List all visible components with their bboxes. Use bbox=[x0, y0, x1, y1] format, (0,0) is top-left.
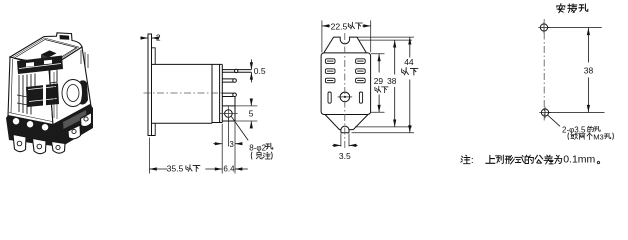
svg-text:2-φ3.5: 2-φ3.5 bbox=[562, 125, 586, 134]
dimension: 44以下 bbox=[409, 37, 411, 133]
dimension: 3 bbox=[213, 143, 241, 145]
relay body bbox=[152, 64, 223, 123]
armature block on top bbox=[41, 50, 57, 57]
internals: armature bar bbox=[17, 56, 63, 75]
dimension: 5 (terminal) bbox=[235, 99, 257, 129]
right extension lines bbox=[352, 37, 415, 133]
leader to hole note bbox=[548, 115, 560, 126]
coil arcs on right face bbox=[62, 80, 84, 107]
svg-text:38: 38 bbox=[387, 76, 397, 86]
dimension: 3.5 tab bbox=[341, 134, 349, 147]
bottom flange trapezoid bbox=[325, 115, 368, 130]
svg-text:0.5: 0.5 bbox=[254, 66, 266, 76]
tab slot dark bbox=[60, 35, 70, 40]
pin 1 (long, 0.5 thick) bbox=[222, 70, 251, 73]
pin 3 bbox=[222, 93, 233, 96]
terminal slots bbox=[325, 59, 365, 103]
svg-text:3: 3 bbox=[229, 140, 234, 149]
svg-text:35.5: 35.5 bbox=[167, 163, 184, 173]
svg-text:22.5: 22.5 bbox=[331, 21, 348, 31]
svg-text:2: 2 bbox=[156, 33, 161, 43]
dimension: 6.4 bbox=[235, 168, 248, 170]
dimension: 22.5以下 bbox=[322, 20, 371, 52]
flange plate bbox=[148, 34, 152, 136]
cover top rim (outer) bbox=[10, 33, 82, 68]
base plate bbox=[220, 64, 223, 122]
lower block bbox=[26, 84, 59, 108]
dimension: 38 bbox=[394, 40, 396, 127]
bottom mounting tab step bbox=[152, 123, 156, 135]
svg-text:5: 5 bbox=[249, 108, 254, 118]
svg-text:3.5: 3.5 bbox=[339, 151, 351, 161]
center hole bbox=[340, 92, 350, 102]
left-front face bbox=[8, 57, 53, 125]
dimension: 2 (flange thickness) bbox=[140, 37, 156, 39]
pins with holes bbox=[13, 113, 92, 154]
rim inner lip bbox=[15, 40, 77, 65]
svg-text:6.4: 6.4 bbox=[223, 164, 235, 173]
dimension: 35.5以下 bbox=[149, 168, 222, 170]
base slab dark bbox=[6, 104, 93, 147]
centerline bbox=[144, 92, 224, 94]
pin 2 bbox=[222, 79, 233, 82]
svg-text:0.1mm: 0.1mm bbox=[563, 154, 595, 166]
extension lines below bbox=[149, 118, 235, 174]
top mounting tab step bbox=[152, 48, 156, 65]
svg-text:44: 44 bbox=[404, 57, 414, 67]
svg-text:M3: M3 bbox=[593, 132, 604, 141]
contact springs bbox=[19, 74, 35, 115]
right face bbox=[49, 47, 91, 125]
dimension: 0.5 (pin thickness) bbox=[250, 59, 252, 82]
vertical centerline bbox=[344, 33, 346, 150]
body outline bbox=[321, 53, 371, 115]
svg-text:38: 38 bbox=[584, 66, 594, 76]
dimension: 29以下 bbox=[378, 54, 380, 113]
leader: 8-phi2 hole note bbox=[231, 116, 248, 140]
bottom solder terminal with hole bbox=[222, 97, 235, 122]
top flange trapezoid with slot bbox=[324, 37, 367, 53]
svg-text:8-φ2: 8-φ2 bbox=[249, 143, 266, 152]
svg-text:29: 29 bbox=[374, 76, 384, 86]
